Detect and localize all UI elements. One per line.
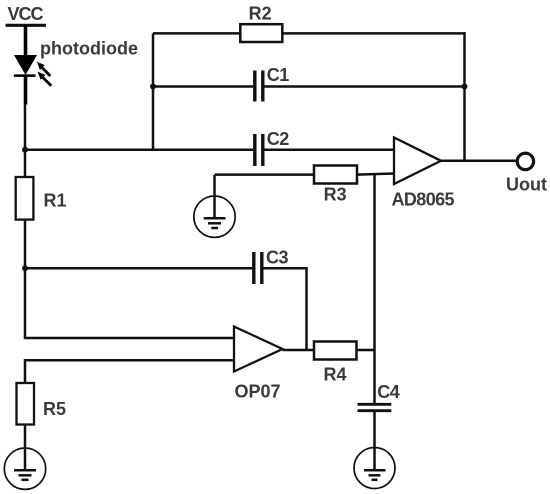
wire node B down to OP07 inverting input corner bbox=[25, 268, 234, 338]
wire C2 to AD8065 noninverting input bbox=[264, 149, 394, 152]
ground G1 stem bbox=[213, 175, 216, 218]
AD8065 label bbox=[392, 190, 455, 210]
node C junction dot bbox=[150, 84, 156, 90]
wire node B to C3 bbox=[25, 267, 252, 270]
op-amp U2 OP07 bbox=[234, 327, 283, 372]
C4 label bbox=[377, 382, 399, 402]
R3 label bbox=[324, 184, 347, 204]
Uout label bbox=[506, 175, 547, 195]
wire OP07 noninverting input to R5 bbox=[25, 360, 234, 384]
capacitor C2 bbox=[255, 134, 263, 166]
svg-text:VCC: VCC bbox=[8, 4, 44, 24]
wire ground G1 to R3 bbox=[215, 173, 315, 176]
capacitor C1 bbox=[255, 71, 263, 102]
capacitor C4 bbox=[358, 404, 392, 410]
resistor R2 bbox=[240, 24, 282, 42]
ground G3 symbol bbox=[4, 448, 45, 489]
svg-text:C2: C2 bbox=[267, 129, 289, 149]
wire top rail to R2 bbox=[153, 32, 240, 35]
R4 label bbox=[324, 365, 347, 385]
photodiode D1 body bbox=[14, 55, 37, 105]
output terminal Uout bbox=[517, 153, 533, 169]
photodiode light arrow 1 bbox=[37, 62, 51, 76]
wire C3 to OP07 output node bbox=[263, 268, 306, 350]
R2 label bbox=[249, 4, 272, 24]
wire node A to C2 left plate bbox=[25, 149, 253, 152]
svg-text:OP07: OP07 bbox=[235, 382, 281, 402]
ground G1 symbol bbox=[194, 196, 235, 237]
VCC rail bar bbox=[6, 24, 47, 27]
svg-text:R3: R3 bbox=[324, 184, 347, 204]
C1 label bbox=[267, 65, 289, 85]
svg-text:R5: R5 bbox=[43, 399, 66, 419]
wire R3 to AD8065 inverting input bbox=[357, 174, 395, 175]
resistor R4 bbox=[314, 342, 357, 360]
svg-text:R4: R4 bbox=[324, 365, 347, 385]
svg-text:photodiode: photodiode bbox=[40, 39, 138, 59]
OP07 label bbox=[235, 382, 281, 402]
wire photodiode cathode down to node A bbox=[24, 104, 27, 150]
C2 label bbox=[267, 129, 289, 149]
wire feedback node down from R3 row bbox=[373, 175, 376, 404]
wire OP07 output to R4 bbox=[283, 349, 315, 352]
R5 label bbox=[43, 399, 66, 419]
resistor R5 bbox=[17, 383, 35, 425]
node D junction dot bbox=[462, 84, 468, 90]
wire R5 to ground G3 bbox=[24, 425, 27, 471]
C3 label bbox=[266, 248, 288, 268]
R1 label bbox=[44, 191, 67, 211]
resistor R1 bbox=[16, 177, 34, 220]
photodiode label bbox=[40, 39, 138, 59]
svg-text:C4: C4 bbox=[377, 382, 399, 402]
resistor R3 bbox=[314, 166, 357, 184]
wire photodiode anode stem bbox=[24, 25, 28, 56]
op-amp U1 AD8065 bbox=[394, 138, 441, 185]
svg-text:R1: R1 bbox=[44, 191, 67, 211]
svg-text:AD8065: AD8065 bbox=[392, 190, 455, 210]
wire R1 to node B bbox=[24, 220, 27, 269]
wire C1 to right riser bbox=[264, 85, 464, 88]
svg-text:Uout: Uout bbox=[506, 175, 547, 195]
wire AD8065 output bbox=[441, 160, 519, 163]
wire R2 to right riser bbox=[282, 32, 465, 35]
wire right riser to output bbox=[463, 32, 466, 161]
wire R4 to feedback node bbox=[357, 349, 375, 352]
node B junction dot bbox=[22, 265, 28, 271]
wire node A to R1 bbox=[24, 150, 27, 178]
svg-text:C1: C1 bbox=[267, 65, 289, 85]
VCC label bbox=[8, 4, 44, 24]
wire C1 row left segment bbox=[153, 85, 253, 88]
wire middle vertical riser bbox=[152, 33, 155, 149]
wire C4 to ground G2 bbox=[373, 411, 376, 470]
svg-text:R2: R2 bbox=[249, 4, 272, 24]
svg-text:C3: C3 bbox=[266, 248, 288, 268]
photodiode light arrow 2 bbox=[38, 72, 52, 86]
ground G2 symbol bbox=[354, 448, 395, 489]
capacitor C3 bbox=[254, 252, 262, 284]
node A junction dot bbox=[22, 147, 28, 153]
